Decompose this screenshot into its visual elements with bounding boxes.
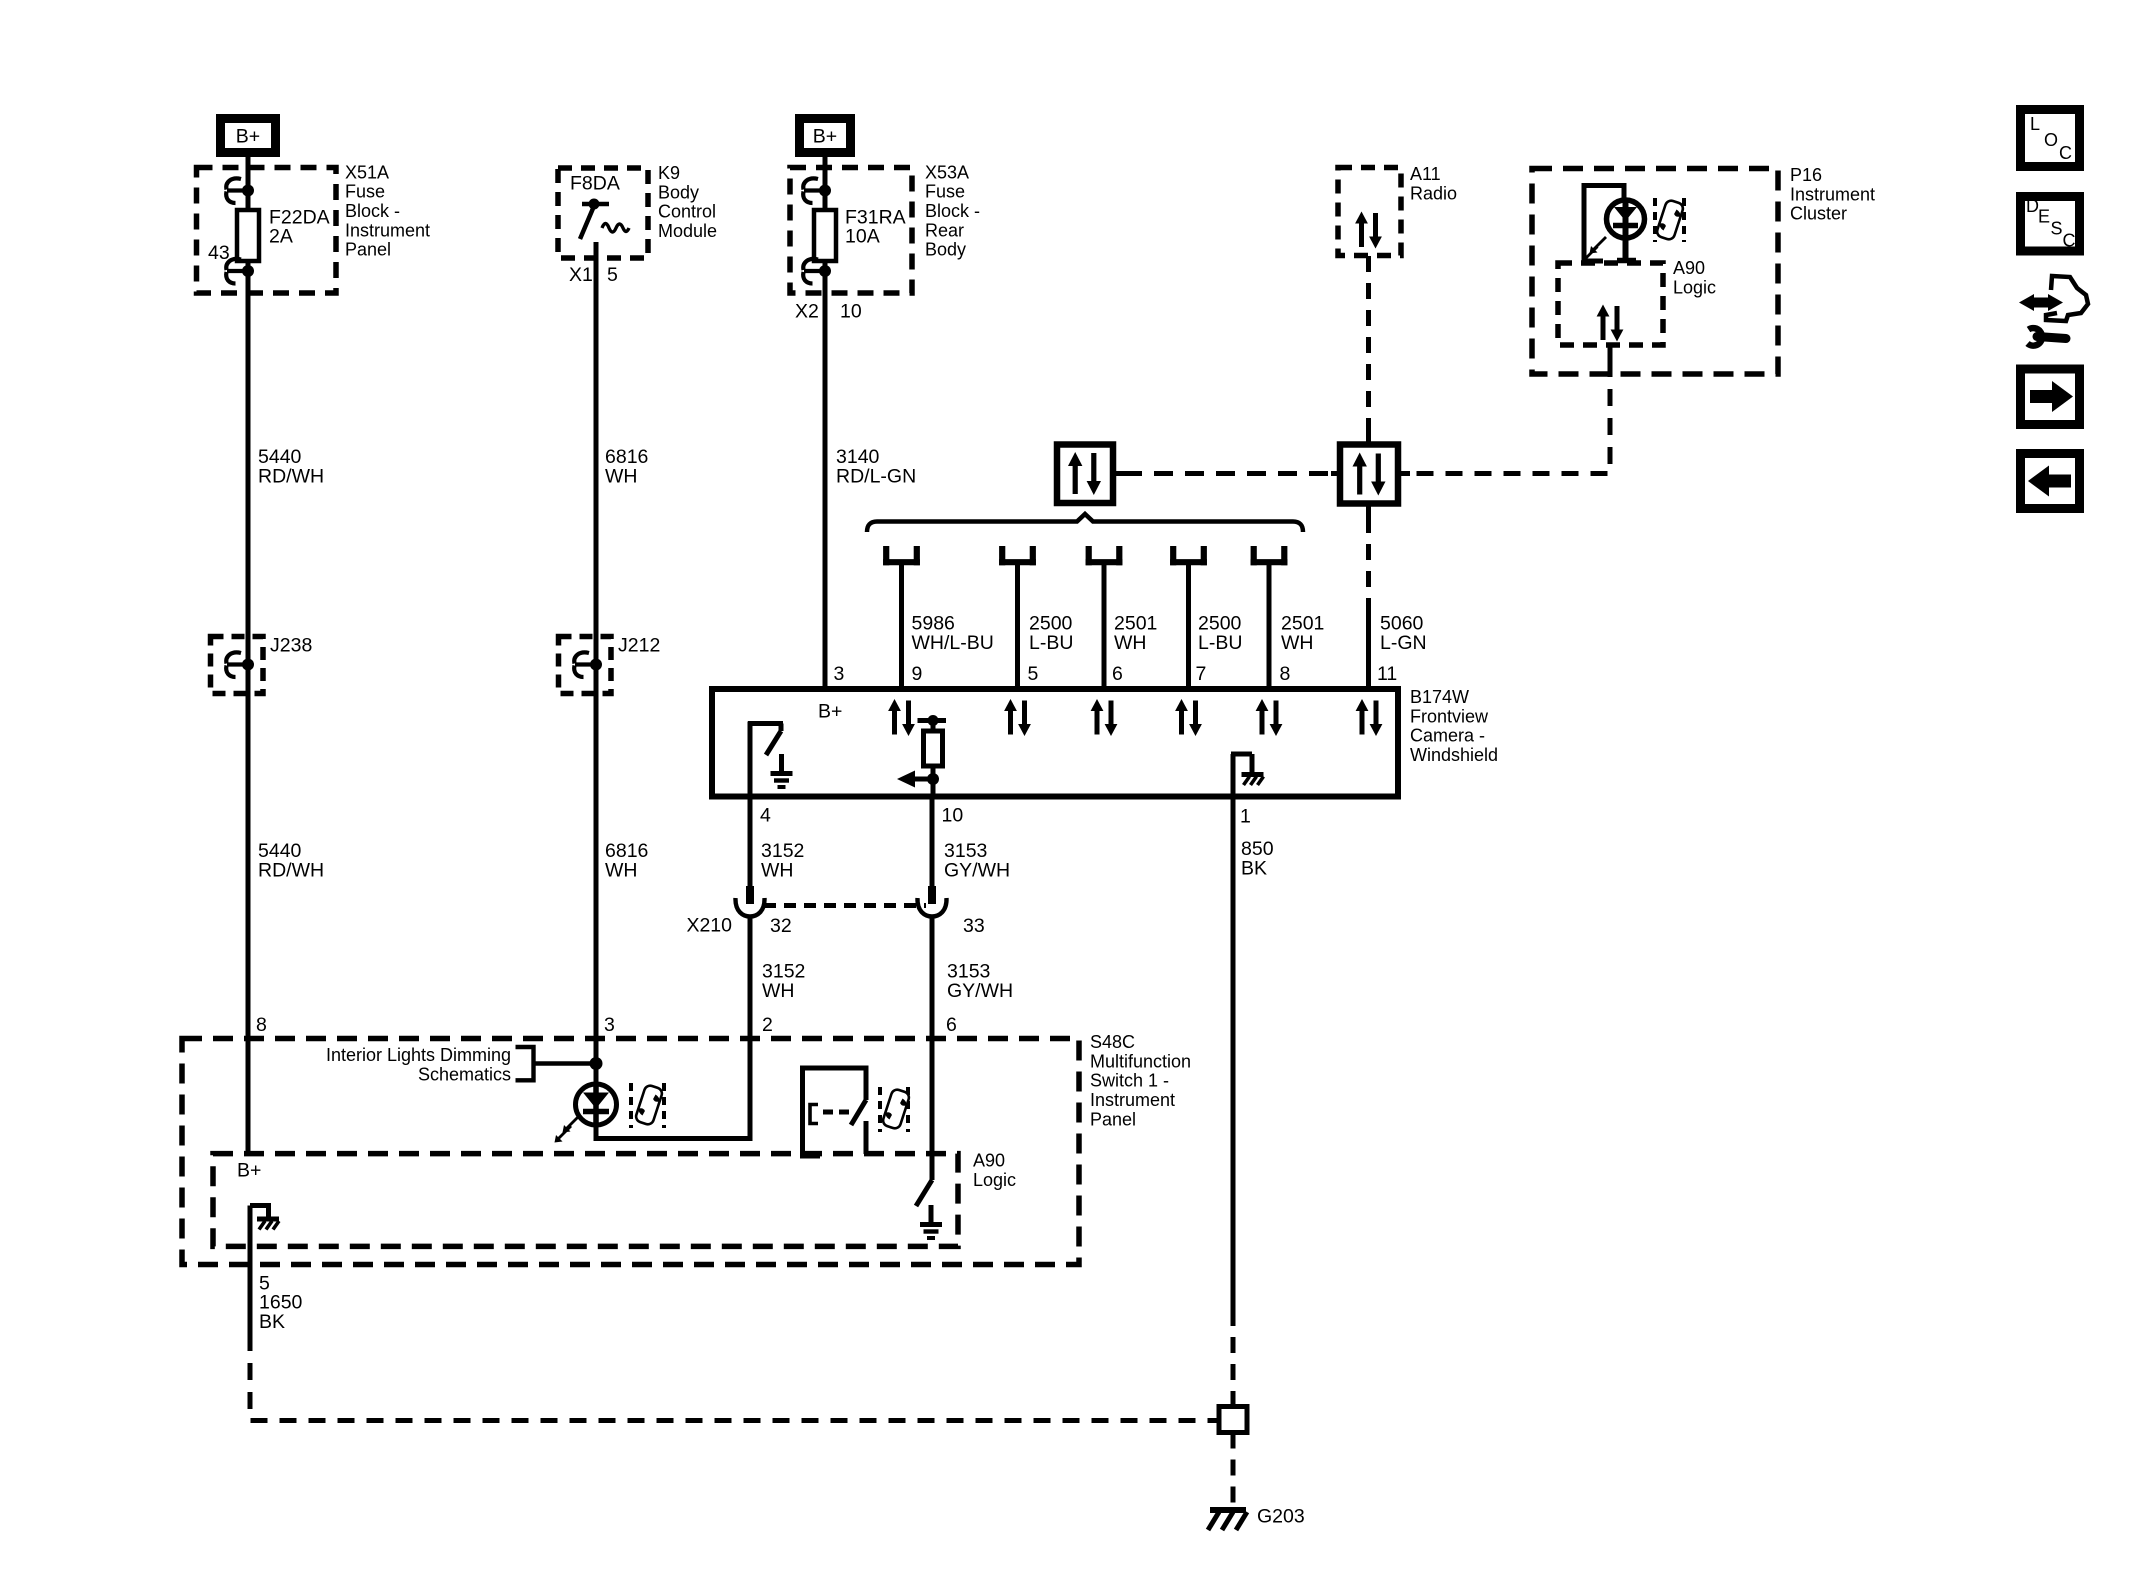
wire 6816 WH lower segment (594, 694, 599, 1039)
svg-text:Logic: Logic (973, 1170, 1016, 1190)
serial data arrows in A11 (1355, 212, 1382, 249)
wire 5986 WH/L-BU (899, 565, 904, 689)
S48C label (1090, 1032, 1191, 1129)
wire inside X51A below fuse (246, 261, 251, 293)
wire 850 BK solid (1231, 797, 1236, 1311)
svg-text:Fuse: Fuse (345, 182, 385, 202)
svg-text:GY/WH: GY/WH (947, 980, 1013, 1002)
wire through J212 (594, 637, 599, 695)
svg-text:Panel: Panel (1090, 1109, 1136, 1129)
svg-text:5: 5 (607, 264, 618, 286)
car door icon P16 (1655, 198, 1684, 242)
stubs of node box 2 (1331, 471, 1340, 476)
svg-text:RD/L-GN: RD/L-GN (836, 465, 916, 487)
repair icon (car outline, double arrow, wrench) (2019, 276, 2088, 346)
svg-text:8: 8 (1280, 663, 1291, 685)
earth ground inside camera (771, 754, 793, 787)
svg-text:Body: Body (925, 240, 966, 260)
svg-text:L-BU: L-BU (1198, 632, 1242, 654)
svg-text:L-GN: L-GN (1380, 632, 1427, 654)
svg-text:6: 6 (946, 1014, 957, 1036)
svg-text:Rear: Rear (925, 220, 964, 240)
car door icon at dimmer (880, 1087, 910, 1132)
svg-text:O: O (2044, 130, 2058, 150)
power symbol B+ (left) (221, 119, 276, 153)
svg-text:Instrument: Instrument (1090, 1090, 1175, 1110)
multifunction switch S48C dashed box (182, 1039, 1079, 1265)
arrows camera pin 9 (888, 699, 915, 736)
wire pin 8 into inner box (246, 1039, 251, 1154)
svg-text:3: 3 (604, 1014, 615, 1036)
wire 2500 L-BU b (1186, 565, 1191, 689)
svg-text:RD/WH: RD/WH (258, 465, 324, 487)
svg-text:9: 9 (912, 663, 923, 685)
connector cup wire 2501b (1251, 546, 1288, 565)
arrows node box 2 (1353, 453, 1386, 496)
node dot J212 (590, 659, 602, 671)
svg-text:Block -: Block - (925, 201, 980, 221)
svg-text:WH: WH (761, 859, 794, 881)
svg-text:43: 43 (208, 242, 230, 264)
svg-text:Radio: Radio (1410, 183, 1457, 203)
svg-text:C: C (2063, 231, 2076, 251)
svg-text:WH: WH (1114, 632, 1147, 654)
dashed wire A11 to node box (1366, 256, 1371, 433)
dashed link box1 to box2 (1123, 471, 1331, 476)
svg-text:Panel: Panel (345, 240, 391, 260)
dashed wire 1650 BK to junction (250, 1334, 1218, 1421)
dashed wire P16 to node box2 (1410, 360, 1610, 474)
svg-text:WH: WH (1281, 632, 1314, 654)
svg-text:6: 6 (1112, 663, 1123, 685)
wire 3153 GY/WH lower (930, 917, 935, 1039)
svg-text:P16: P16 (1790, 165, 1822, 185)
K9 label (658, 163, 717, 241)
terminating resistor inside camera (897, 715, 946, 797)
wire 2501 WH b (1267, 565, 1272, 689)
svg-text:WH: WH (605, 859, 638, 881)
serial data arrows in A90 P16 (1597, 305, 1624, 342)
brace over camera bus wires (867, 514, 1303, 532)
next page arrow icon box (2021, 369, 2080, 425)
svg-text:33: 33 (963, 915, 985, 937)
ground G203 symbol (1208, 1510, 1247, 1530)
svg-text:Schematics: Schematics (418, 1064, 511, 1084)
B174W label (1410, 687, 1498, 765)
arrows camera pin 11 (1356, 699, 1383, 736)
stub right of node box 1 (1113, 471, 1123, 476)
wire inside X53A above fuse (823, 168, 828, 210)
svg-text:X210: X210 (686, 914, 732, 936)
DESC icon box (2021, 196, 2080, 251)
indicator frame in P16 (1584, 186, 1624, 262)
wire 2501 WH a (1102, 565, 1107, 689)
wire 5060 L-GN solid (1366, 598, 1371, 689)
inline connector X210 pin 33 (917, 886, 946, 917)
wire 6816 WH upper segment (594, 242, 599, 637)
logic A90 dashed box in S48C (213, 1154, 958, 1247)
arrows camera pin 8 (1256, 699, 1283, 736)
connector cup wire 2501a (1086, 546, 1123, 565)
wire pin 3 down to LED (594, 1039, 599, 1085)
wire 3152 WH upper (748, 797, 753, 887)
dimmer switch symbol S48C (803, 1068, 867, 1156)
svg-text:BK: BK (259, 1311, 285, 1333)
wire through J238 (246, 637, 251, 695)
junction square (1219, 1407, 1247, 1433)
svg-text:8: 8 (256, 1014, 267, 1036)
wire 5440 RD/WH lower segment (246, 694, 251, 1039)
wire 5440 RD/WH upper segment (246, 293, 251, 637)
clip terminal upper X53A (803, 178, 823, 203)
connector cup wire 2500a (999, 546, 1036, 565)
svg-text:L: L (2030, 114, 2040, 134)
node dot upper X51A (242, 185, 254, 197)
interior lights dimming callout (326, 1045, 534, 1084)
serial data node box 2 (1340, 445, 1398, 504)
fuse block X53A dashed box (790, 168, 912, 294)
svg-text:WH/L-BU: WH/L-BU (912, 632, 994, 654)
wire LED to pin 2 riser (596, 1039, 750, 1139)
svg-text:1: 1 (1240, 806, 1251, 828)
inline connector X210 pin 32 (735, 886, 764, 917)
svg-text:10: 10 (942, 805, 964, 827)
wire 1650 BK solid (248, 1206, 253, 1335)
A90 label P16 (1673, 258, 1716, 297)
relay F8DA (570, 173, 629, 240)
clip terminal lower X53A (803, 259, 823, 284)
svg-text:Cluster: Cluster (1790, 204, 1847, 224)
svg-text:7: 7 (1196, 663, 1207, 685)
svg-text:Block -: Block - (345, 201, 400, 221)
P16 label (1790, 165, 1875, 224)
clip terminal lower X51A (226, 259, 246, 284)
wire inside X51A above fuse (246, 168, 251, 210)
svg-text:X2: X2 (795, 301, 819, 323)
clip terminal upper X51A (226, 178, 246, 203)
indicator LED P16 (1581, 200, 1645, 263)
svg-text:A11: A11 (1410, 164, 1441, 184)
svg-text:Module: Module (658, 221, 717, 241)
splice J238 dashed box (211, 637, 264, 694)
svg-text:X1: X1 (569, 264, 593, 286)
switch lever to ground (916, 1180, 932, 1206)
svg-text:32: 32 (770, 915, 792, 937)
svg-text:4: 4 (760, 805, 771, 827)
A11 label (1410, 164, 1457, 203)
connector cup wire 2500b (1170, 546, 1207, 565)
svg-text:Switch 1 -: Switch 1 - (1090, 1071, 1169, 1091)
arrows camera pin 7 (1175, 699, 1202, 736)
svg-text:5: 5 (1028, 663, 1039, 685)
fuse F22DA 2A (237, 210, 259, 261)
body control module K9 dashed box (558, 168, 648, 258)
node dot J238 (242, 659, 254, 671)
svg-text:11: 11 (1377, 663, 1397, 685)
svg-text:WH: WH (605, 465, 638, 487)
node dot lower X53A (819, 265, 831, 277)
svg-text:Multifunction: Multifunction (1090, 1051, 1191, 1071)
svg-text:Logic: Logic (1673, 277, 1716, 297)
svg-text:WH: WH (762, 980, 795, 1002)
chassis ground stub B+ supply (250, 1206, 279, 1230)
stub below A90 P16 (1608, 345, 1613, 360)
serial data node box 1 (1057, 445, 1113, 504)
wire callout to LED node (534, 1061, 597, 1065)
svg-text:BK: BK (1241, 857, 1267, 879)
wire 3153 GY/WH upper (930, 797, 935, 887)
clip terminal J238 (226, 652, 246, 677)
svg-text:Frontview: Frontview (1410, 706, 1489, 726)
dashed wire junction to G203 (1231, 1433, 1236, 1508)
svg-text:RD/WH: RD/WH (258, 859, 324, 881)
logic A90 dashed box in P16 (1558, 263, 1663, 345)
node dot upper X53A (819, 185, 831, 197)
arrows camera pin 6 (1091, 699, 1118, 736)
wire pin 6 to switch (930, 1039, 935, 1181)
connector cup wire 5986 (883, 546, 920, 565)
svg-text:A90: A90 (973, 1151, 1005, 1171)
clip terminal J212 (574, 652, 594, 677)
earth ground S48C (920, 1205, 942, 1238)
fuse F31RA 10A (814, 210, 836, 261)
wire B+ to X51A (246, 157, 251, 168)
chassis ground inside camera pin 1 (1231, 754, 1264, 797)
wire inside X53A below fuse (823, 261, 828, 293)
svg-text:B+: B+ (237, 1160, 261, 1182)
car door icon at LED (631, 1083, 664, 1128)
svg-text:Instrument: Instrument (345, 220, 430, 240)
svg-text:J212: J212 (618, 635, 660, 657)
LOC icon box (2021, 110, 2080, 167)
svg-text:Fuse: Fuse (925, 182, 965, 202)
dashed wire below box2 (1366, 517, 1371, 598)
svg-text:Windshield: Windshield (1410, 745, 1498, 765)
svg-text:S: S (2051, 219, 2063, 239)
svg-text:C: C (2059, 143, 2072, 163)
switch to ground inside camera (748, 722, 783, 797)
svg-text:L-BU: L-BU (1029, 632, 1073, 654)
svg-text:X53A: X53A (925, 162, 969, 182)
svg-text:K9: K9 (658, 163, 680, 183)
svg-text:Control: Control (658, 202, 716, 222)
power symbol B+ (middle) (800, 119, 851, 153)
A90 label S48C (973, 1151, 1016, 1190)
svg-text:S48C: S48C (1090, 1032, 1135, 1052)
splice J212 dashed box (559, 637, 612, 694)
wire 3152 WH lower (748, 917, 753, 1039)
fuse block X51A dashed box (197, 168, 337, 294)
svg-text:X51A: X51A (345, 162, 389, 182)
svg-text:10A: 10A (845, 226, 880, 248)
instrument cluster P16 dashed box (1532, 169, 1778, 375)
svg-text:10: 10 (840, 301, 862, 323)
svg-text:Body: Body (658, 182, 699, 202)
svg-text:Instrument: Instrument (1790, 184, 1875, 204)
svg-text:3: 3 (834, 663, 845, 685)
svg-text:GY/WH: GY/WH (944, 859, 1010, 881)
wire 3140 RD/L-GN (823, 293, 828, 689)
svg-text:B+: B+ (813, 126, 837, 148)
arrows camera pin 5 (1004, 699, 1031, 736)
svg-text:E: E (2038, 207, 2050, 227)
svg-text:J238: J238 (270, 635, 312, 657)
svg-text:G203: G203 (1257, 1505, 1305, 1527)
previous page arrow icon box (2021, 454, 2080, 509)
node dot LED top (590, 1057, 603, 1070)
svg-text:Interior Lights Dimming: Interior Lights Dimming (326, 1045, 511, 1065)
svg-text:Camera -: Camera - (1410, 726, 1485, 746)
svg-text:B+: B+ (818, 701, 842, 723)
X53A label (925, 162, 980, 259)
wire B+ to X53A (823, 157, 828, 168)
svg-text:B+: B+ (236, 126, 260, 148)
backlight LED S48C (555, 1084, 617, 1143)
svg-text:A90: A90 (1673, 258, 1705, 278)
dashed connector link X210 (764, 903, 926, 908)
svg-text:2A: 2A (269, 226, 293, 248)
radio A11 dashed box (1338, 168, 1401, 256)
node dot lower X51A (242, 265, 254, 277)
svg-text:B174W: B174W (1410, 687, 1469, 707)
X51A label (345, 162, 430, 259)
camera module B174W box (712, 689, 1398, 797)
dashed wire 850 BK to junction (1231, 1310, 1236, 1407)
wire 2500 L-BU a (1015, 565, 1020, 689)
svg-text:2: 2 (762, 1014, 773, 1036)
arrows node box 1 (1068, 452, 1101, 495)
svg-text:F8DA: F8DA (570, 173, 620, 195)
